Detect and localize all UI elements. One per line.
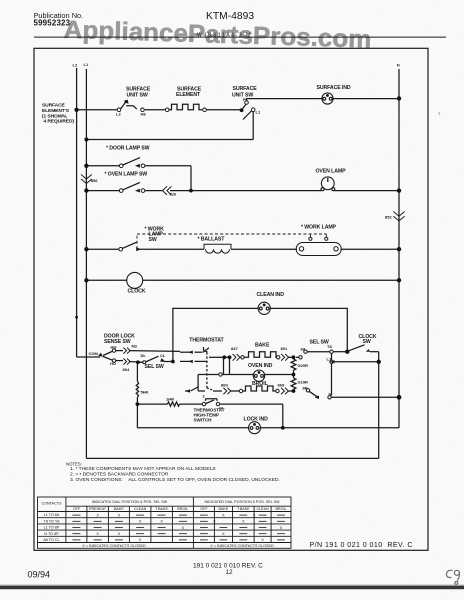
svg-text:L2: L2 <box>116 112 121 117</box>
svg-text:HG: HG <box>111 345 117 350</box>
svg-text:826: 826 <box>170 192 177 197</box>
svg-text:SURFACE: SURFACE <box>42 103 66 109</box>
svg-text:X: X <box>280 526 283 530</box>
svg-text:869: 869 <box>278 383 285 388</box>
svg-text:SURFACE: SURFACE <box>233 86 258 92</box>
svg-text:P/N 191 0 021 0 010 REV. C: P/N 191 0 021 0 010 REV. C <box>310 541 413 549</box>
svg-text:3. OVEN CONDITIONS: ALL CO: 3. OVEN CONDITIONS: ALL CONTROLS SET TO … <box>70 477 280 483</box>
svg-text:BROIL: BROIL <box>177 507 188 511</box>
svg-text:X: X <box>213 520 216 524</box>
svg-text:CLOCK: CLOCK <box>128 289 146 295</box>
svg-text:09/94: 09/94 <box>28 569 51 579</box>
svg-text:G20R: G20R <box>298 363 309 368</box>
svg-text:LOCK IND: LOCK IND <box>244 416 269 422</box>
svg-text:NOTES:: NOTES: <box>66 462 82 467</box>
svg-text:G19R: G19R <box>298 380 309 385</box>
svg-text:8A: 8A <box>301 346 306 351</box>
svg-text:* OVEN LAMP SW: * OVEN LAMP SW <box>105 172 148 178</box>
svg-text:KTM-4893: KTM-4893 <box>206 11 254 22</box>
svg-text:X: X <box>242 520 245 524</box>
svg-text:ELEMENT'S: ELEMENT'S <box>42 108 70 114</box>
svg-text:X = INDICATES CONTACTS CLO: X = INDICATES CONTACTS CLOSED <box>210 544 274 548</box>
svg-text:OVEN IND: OVEN IND <box>248 363 273 369</box>
svg-text:CL: CL <box>160 353 166 358</box>
svg-text:OFF: OFF <box>73 507 81 511</box>
svg-text:N TO 8P: N TO 8P <box>44 532 59 536</box>
svg-text:SWITCH: SWITCH <box>194 418 213 423</box>
svg-text:UNIT SW: UNIT SW <box>127 93 148 99</box>
svg-text:1. * THESE COMPONENTS MAY NO: 1. * THESE COMPONENTS MAY NOT APPEAR ON … <box>70 466 216 472</box>
svg-text:T.BAKE: T.BAKE <box>237 507 250 511</box>
svg-text:X: X <box>118 513 121 517</box>
svg-text:L1: L1 <box>256 110 261 115</box>
svg-text:CLEAN IND: CLEAN IND <box>257 292 285 298</box>
svg-text:SEL SW: SEL SW <box>310 339 329 345</box>
svg-text:T.BAKE: T.BAKE <box>155 507 168 511</box>
svg-text:4 REQUIRED): 4 REQUIRED) <box>44 118 75 124</box>
svg-text:59952323: 59952323 <box>34 19 71 28</box>
svg-text:CLEAN: CLEAN <box>134 507 147 511</box>
svg-text:SEL SW: SEL SW <box>145 364 164 370</box>
svg-text:BROIL: BROIL <box>275 507 286 511</box>
svg-text:* WORK LAMP: * WORK LAMP <box>301 225 337 231</box>
svg-text:* BALLAST: * BALLAST <box>198 236 226 242</box>
svg-text:BROIL: BROIL <box>252 381 269 387</box>
svg-text:847: 847 <box>231 346 238 351</box>
svg-text:OFF: OFF <box>200 507 208 511</box>
svg-text:X = INDICATES CONTACTS CLO: X = INDICATES CONTACTS CLOSED <box>82 544 146 548</box>
svg-text:SW: SW <box>363 339 371 345</box>
svg-text:852: 852 <box>385 215 392 220</box>
svg-text:HO: HO <box>110 361 116 366</box>
svg-text:PREHEAT: PREHEAT <box>89 507 107 511</box>
svg-text:OVEN LAMP: OVEN LAMP <box>316 169 347 175</box>
svg-text:INDICATED DIAL POSITION 5: INDICATED DIAL POSITION 5 POS. SEL SW <box>204 500 280 504</box>
svg-text:THERMOSTAT: THERMOSTAT <box>189 338 224 344</box>
svg-text:CONTACTS: CONTACTS <box>41 502 62 506</box>
svg-text:X: X <box>222 532 225 536</box>
svg-text:SURFACE: SURFACE <box>126 86 151 92</box>
svg-text:801: 801 <box>281 346 288 351</box>
svg-text:COM: COM <box>89 351 99 356</box>
svg-text:L1 TO 8P: L1 TO 8P <box>44 526 60 530</box>
svg-text:SENSE SW: SENSE SW <box>104 339 131 345</box>
svg-text:UNIT SW: UNIT SW <box>232 93 253 99</box>
svg-text:5HK: 5HK <box>141 389 149 394</box>
svg-text:T8 TO Y8: T8 TO Y8 <box>44 519 60 523</box>
svg-text:SW: SW <box>149 237 157 243</box>
svg-text:M2: M2 <box>132 343 138 348</box>
svg-text:12: 12 <box>226 569 234 576</box>
svg-text:L1: L1 <box>84 62 89 67</box>
svg-text:L1: L1 <box>327 356 332 361</box>
svg-text:H8: H8 <box>141 112 147 117</box>
svg-text:CLEAN: CLEAN <box>256 507 269 511</box>
svg-text:856: 856 <box>91 178 98 183</box>
svg-text:X: X <box>222 513 225 517</box>
svg-text:SURFACE IND: SURFACE IND <box>317 85 351 91</box>
svg-text:L1 TO 8A: L1 TO 8A <box>44 513 60 517</box>
svg-text:BAKE: BAKE <box>218 507 228 511</box>
svg-text:L2: L2 <box>73 63 78 68</box>
svg-text:1HR: 1HR <box>166 397 174 402</box>
svg-text:X: X <box>182 526 185 530</box>
svg-text:ELEMENT: ELEMENT <box>176 92 201 98</box>
svg-text:2. » • DENOTES BACKWARD CON: 2. » • DENOTES BACKWARD CONNECTOR <box>70 472 169 478</box>
svg-text:BAKE: BAKE <box>255 342 270 348</box>
svg-text:8P: 8P <box>303 385 308 390</box>
svg-text:BAKE: BAKE <box>114 507 124 511</box>
svg-text:860: 860 <box>221 383 228 388</box>
svg-text:INDICATED DIAL POSITION &: INDICATED DIAL POSITION & POS. SEL SW <box>92 500 168 504</box>
svg-text:N: N <box>397 63 400 68</box>
svg-text:8A TO CL: 8A TO CL <box>43 538 59 542</box>
svg-text:N: N <box>329 392 332 397</box>
svg-text:DL: DL <box>141 353 147 358</box>
svg-text:* DOOR LAMP SW: * DOOR LAMP SW <box>106 146 150 152</box>
svg-text:X: X <box>118 532 121 536</box>
svg-text:804: 804 <box>123 367 130 372</box>
